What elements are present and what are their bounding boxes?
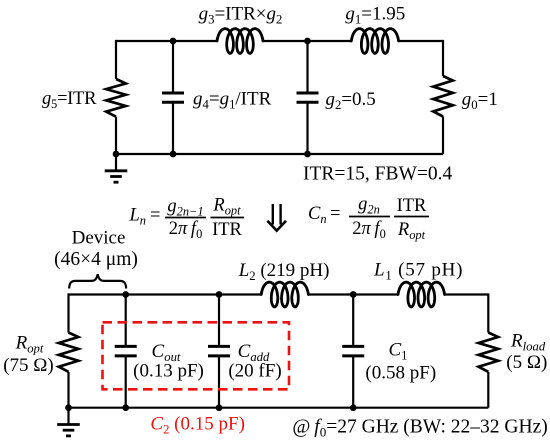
svg-text:ITR: ITR: [397, 196, 427, 216]
svg-text:g5​=ITR: g5​=ITR: [42, 88, 97, 111]
svg-text:=: =: [150, 206, 160, 226]
svg-text:@ f0​=27 GHz (BW: 22–32 GHz): @ f0​=27 GHz (BW: 22–32 GHz): [292, 417, 547, 440]
svg-text:(0.58 pF): (0.58 pF): [365, 363, 436, 384]
svg-text:(5 Ω): (5 Ω): [506, 352, 547, 373]
svg-text:ITR=15, FBW=0.4: ITR=15, FBW=0.4: [303, 164, 453, 185]
svg-text:=: =: [330, 204, 340, 224]
svg-text:g1​=1.95: g1​=1.95: [345, 4, 405, 27]
svg-text:(20 fF): (20 fF): [228, 361, 281, 382]
svg-text:g0​=1: g0​=1: [462, 89, 498, 112]
svg-text:(46×4 μm): (46×4 μm): [54, 249, 138, 270]
svg-text:(0.13 pF): (0.13 pF): [133, 361, 204, 382]
svg-text:ITR: ITR: [212, 220, 242, 240]
svg-text:(75 Ω): (75 Ω): [3, 355, 54, 376]
svg-text:g2​=0.5: g2​=0.5: [326, 89, 376, 112]
svg-text:Device: Device: [72, 227, 126, 248]
